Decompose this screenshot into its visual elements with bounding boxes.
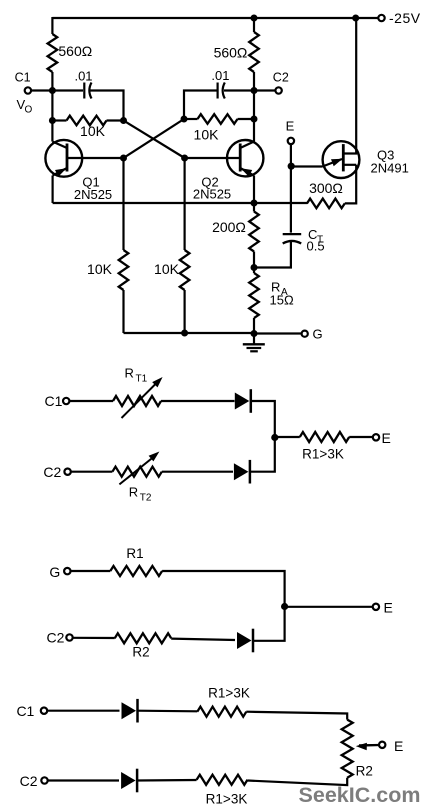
wire right 10K left lead xyxy=(184,118,198,120)
svg-text:E: E xyxy=(384,600,393,616)
label E (section 3) xyxy=(384,600,393,616)
node right vertical / 10K horizontal xyxy=(251,116,258,123)
label -25V xyxy=(389,10,421,26)
label R1 (section 3) xyxy=(126,546,143,561)
wire pot bottom xyxy=(248,778,348,785)
svg-text:E: E xyxy=(286,119,295,134)
label R2 (section 4) xyxy=(356,764,373,779)
svg-text:C2: C2 xyxy=(47,630,65,646)
resistor R1>3K (section 4 lower) xyxy=(197,775,248,785)
wire right 560 top lead xyxy=(253,17,255,32)
wire left cap to corner xyxy=(91,91,124,121)
wire E node to Q3 emitter xyxy=(291,165,322,167)
node top rail / Q3 base-two line xyxy=(352,15,359,22)
wire left vertical between nodes xyxy=(51,91,53,121)
arrow R2 wiper xyxy=(356,743,379,751)
wire ground node to G terminal xyxy=(254,332,301,334)
wire node to left cap xyxy=(52,89,83,91)
label 200 ohm xyxy=(212,219,246,235)
resistor 300&#937; xyxy=(307,199,345,209)
wire Q1 base lead xyxy=(67,157,124,159)
resistor RA 15&#937; xyxy=(249,273,259,318)
label R1>3K (section 4 lower) xyxy=(206,792,248,807)
svg-text:SeekIC.com: SeekIC.com xyxy=(299,783,421,807)
wire CT bottom lead xyxy=(254,241,291,268)
svg-text:10K: 10K xyxy=(154,261,180,277)
label right 10K horizontal xyxy=(194,127,220,143)
label RA xyxy=(271,280,288,299)
wire Q3 emitter lead xyxy=(323,159,343,167)
diode section4 lower xyxy=(121,769,137,793)
transistor Q2 base bar xyxy=(239,144,242,172)
svg-text:C2: C2 xyxy=(273,71,289,85)
resistor right vertical 10K xyxy=(180,250,190,290)
node ground rail / right 10K xyxy=(181,330,188,337)
label Q2 2N525 xyxy=(193,187,231,202)
label right .01 xyxy=(211,68,229,83)
label CT xyxy=(308,227,323,246)
resistor right 10K horizontal xyxy=(198,114,238,124)
arrow Q1 emitter (PNP) xyxy=(55,168,67,176)
resistor right 560&#937; xyxy=(249,32,259,72)
wire C2 to RT2 xyxy=(71,471,112,473)
svg-text:O: O xyxy=(25,105,33,116)
capacitor CT plates xyxy=(283,234,302,243)
node ground junction xyxy=(251,330,258,337)
node right collector / C2 / cap junction xyxy=(251,87,258,94)
wire diode to node (section 3) xyxy=(253,607,285,641)
svg-text:C1: C1 xyxy=(15,71,31,85)
terminal C1 (section 4) xyxy=(41,708,47,714)
label RT1 xyxy=(125,366,148,385)
arrow Q2 emitter (PNP) xyxy=(241,168,253,176)
svg-text:R1>3K: R1>3K xyxy=(206,792,248,807)
terminal C1 (top left) xyxy=(25,87,31,93)
svg-text:R1: R1 xyxy=(126,546,143,561)
wire 200 ohm bottom lead xyxy=(253,252,255,268)
svg-text:R2: R2 xyxy=(356,764,373,779)
resistor 200&#937; xyxy=(249,212,259,252)
wire C1 to node xyxy=(31,89,52,91)
arrow RT1 variable xyxy=(122,377,163,418)
svg-text:560Ω: 560Ω xyxy=(58,43,92,59)
wire 200 ohm top lead xyxy=(253,203,255,212)
wire Q3 base-two lead xyxy=(343,18,356,154)
ground symbol xyxy=(243,333,265,351)
node left vertical / 10K horizontal xyxy=(49,117,56,124)
wire ground rail xyxy=(124,332,255,334)
label Q2 xyxy=(201,175,218,190)
wire Q3 base-one inner lead xyxy=(343,164,356,166)
label R1>3K (section 4 upper) xyxy=(208,686,250,701)
label C1 (top left) xyxy=(15,71,31,85)
svg-text:15Ω: 15Ω xyxy=(270,293,294,308)
wire right 10K right lead xyxy=(238,118,255,120)
transistor Q2 circle xyxy=(227,140,263,176)
wire E to node xyxy=(290,144,292,166)
label C1 (section 4) xyxy=(16,703,34,719)
wire left 560 bottom lead xyxy=(51,72,53,91)
svg-text:R2: R2 xyxy=(132,645,149,660)
label C2 (top) xyxy=(273,71,289,85)
wire 300 ohm to Q3 base-one xyxy=(345,165,356,204)
svg-text:2N525: 2N525 xyxy=(193,187,231,202)
diode section2 lower xyxy=(234,460,250,484)
node Q1 base junction xyxy=(120,155,127,162)
label E (top) xyxy=(286,119,295,134)
wire right cap to node xyxy=(224,89,254,91)
wire right 560 bottom lead xyxy=(253,72,255,91)
transistor Q1 base bar xyxy=(66,144,69,172)
terminal C1 (section 2) xyxy=(63,398,69,404)
node top rail / right 560 ohm xyxy=(251,15,258,22)
wire RA top lead xyxy=(253,268,255,274)
wire Q1 collector lead xyxy=(52,121,67,149)
svg-text:C1: C1 xyxy=(45,393,63,409)
node section2 junction xyxy=(271,434,278,441)
label right vertical 10K xyxy=(154,261,180,277)
svg-text:200Ω: 200Ω xyxy=(212,219,246,235)
svg-text:E: E xyxy=(382,430,391,446)
capacitor right .01 plates xyxy=(218,83,225,99)
label left 560 ohm xyxy=(58,43,92,59)
svg-text:E: E xyxy=(394,738,403,754)
wire diode to R1 (section 4 lower) xyxy=(137,779,197,782)
svg-text:560Ω: 560Ω xyxy=(214,45,248,61)
wire right vertical 10K bottom lead xyxy=(184,290,186,333)
wire Q1 emitter lead xyxy=(53,168,67,203)
transistor Q1 circle xyxy=(45,140,82,177)
svg-text:10K: 10K xyxy=(87,261,113,277)
resistor RT2 xyxy=(112,467,161,477)
terminal C2 (section 3) xyxy=(66,634,72,640)
svg-text:10K: 10K xyxy=(80,123,106,139)
svg-text:2N525: 2N525 xyxy=(74,187,112,202)
svg-text:T1: T1 xyxy=(136,374,148,385)
label left vertical 10K xyxy=(87,261,113,277)
wire C2 to R2 xyxy=(73,637,115,639)
wire C1 to RT1 xyxy=(70,400,114,402)
wire left 10K right lead xyxy=(107,119,124,121)
label C1 (section 2) xyxy=(45,393,63,409)
node right coupling junction xyxy=(181,116,188,123)
node E junction xyxy=(288,163,295,170)
resistor R2 (section 3) xyxy=(115,633,172,643)
label E (section 2) xyxy=(382,430,391,446)
svg-text:.01: .01 xyxy=(211,68,229,83)
terminal E (section 3) xyxy=(373,604,379,610)
wire left vertical 10K bottom lead xyxy=(122,290,124,333)
terminal G xyxy=(302,331,308,337)
label C2 (section 2) xyxy=(43,464,61,480)
svg-text:G: G xyxy=(49,564,60,580)
wire junction to R1 xyxy=(275,436,300,438)
label Q3 xyxy=(377,148,394,163)
wire diode to R1 (section 4 upper) xyxy=(137,710,197,713)
wire common emitter rail xyxy=(53,202,308,204)
transistor Q3 base bar xyxy=(342,144,345,171)
terminal C2 (top) xyxy=(275,87,281,93)
resistor RT1 xyxy=(113,396,161,406)
svg-text:0.5: 0.5 xyxy=(307,239,325,254)
terminal G (section 3) xyxy=(64,568,70,574)
wire left vertical 10K top lead xyxy=(122,158,124,250)
label C2 (section 4) xyxy=(20,773,38,789)
wire G to R1 xyxy=(71,570,111,572)
wire diode to junction (lower) xyxy=(251,438,275,472)
node section3 junction xyxy=(281,603,288,610)
terminal E (top) xyxy=(288,138,294,144)
diode section3 xyxy=(237,629,253,653)
label RT2 xyxy=(129,485,152,504)
arrow Q3 emitter (UJT) xyxy=(331,159,343,166)
svg-text:300Ω: 300Ω xyxy=(309,180,343,196)
capacitor left .01 plates xyxy=(84,83,91,99)
label Vo output xyxy=(17,97,33,116)
label Q1 xyxy=(82,175,99,190)
label left .01 xyxy=(74,69,92,84)
label E (section 4) xyxy=(394,738,403,754)
terminal C2 (section 4) xyxy=(41,777,47,783)
label C2 (section 3) xyxy=(47,630,65,646)
label R2 (section 3) xyxy=(132,645,149,660)
svg-text:R1>3K: R1>3K xyxy=(208,686,250,701)
label 300 ohm xyxy=(309,180,343,196)
wire C1 to diode (section 4) xyxy=(47,710,119,712)
diode section2 upper xyxy=(235,389,251,413)
watermark SeekIC.com xyxy=(299,783,421,807)
node left coupling junction xyxy=(120,117,127,124)
arrow RT2 variable xyxy=(119,452,159,485)
wire RT1 to diode xyxy=(161,400,235,402)
node left collector / C1 / cap junction xyxy=(49,87,56,94)
svg-text:R: R xyxy=(125,366,134,381)
resistor left 10K horizontal xyxy=(67,116,107,126)
transistor Q3 circle xyxy=(323,141,360,178)
label Q3 2N491 xyxy=(371,161,409,176)
svg-text:C2: C2 xyxy=(43,464,61,480)
wire R1 to corner to node xyxy=(162,571,285,607)
svg-text:-25V: -25V xyxy=(389,10,421,26)
wire RA bottom lead xyxy=(253,318,255,333)
wire top -25V supply rail xyxy=(52,17,378,19)
resistor R1>3K (section 2) xyxy=(300,432,349,442)
svg-text:10K: 10K xyxy=(194,127,220,143)
node emitter rail / Q2 emitter / 200 ohm xyxy=(251,200,258,207)
wire right vertical between nodes xyxy=(253,91,255,142)
svg-text:R: R xyxy=(129,485,138,500)
wire R1 to E xyxy=(349,436,373,438)
resistor R1>3K (section 4 upper) xyxy=(197,707,246,717)
wire left 10K left lead xyxy=(52,119,66,121)
wire right vertical 10K top lead xyxy=(184,158,186,250)
wire Q2 base lead xyxy=(185,157,241,159)
wire RT2 to diode xyxy=(162,471,233,473)
label G xyxy=(313,327,323,342)
svg-text:G: G xyxy=(313,327,323,342)
terminal -25V xyxy=(378,15,384,21)
wire right cap to corner xyxy=(184,91,217,120)
wire diode to junction (upper) xyxy=(251,401,275,438)
label RA 15 ohm xyxy=(270,293,294,308)
svg-text:C2: C2 xyxy=(20,773,38,789)
terminal E (section 2) xyxy=(373,434,379,440)
wire Q2 emitter lead xyxy=(240,168,254,203)
label left 10K horizontal xyxy=(80,123,106,139)
wire left 560 top lead xyxy=(51,17,53,34)
wire C2 to diode (section 4) xyxy=(48,779,119,781)
wire node to C2 terminal xyxy=(254,89,275,91)
svg-text:2N491: 2N491 xyxy=(371,161,409,176)
wire R2 to diode xyxy=(171,639,235,640)
label CT 0.5 xyxy=(307,239,325,254)
node 200 ohm / CT / RA junction xyxy=(251,264,258,271)
svg-text:C1: C1 xyxy=(16,703,34,719)
svg-text:.01: .01 xyxy=(74,69,92,84)
resistor R1 (section 3) xyxy=(110,566,162,576)
svg-text:R1>3K: R1>3K xyxy=(302,447,344,462)
terminal C2 (section 2) xyxy=(64,469,70,475)
wire node to E (section 3) xyxy=(285,606,373,608)
wire E node down to CT xyxy=(290,166,292,233)
wire Q2 collector lead xyxy=(240,142,254,149)
label R1>3K (section 2) xyxy=(302,447,344,462)
node Q2 base junction xyxy=(181,155,188,162)
label Q1 2N525 xyxy=(74,187,112,202)
diode section4 upper xyxy=(122,699,138,723)
svg-text:T2: T2 xyxy=(140,493,152,504)
resistor left vertical 10K xyxy=(119,250,129,290)
wire R1 to pot top xyxy=(246,712,347,720)
wire wiper to E xyxy=(359,744,379,746)
wire diagonal left-junction to Q2 base xyxy=(124,121,185,159)
resistor left 560&#937; xyxy=(48,34,58,72)
wire diagonal right-junction to Q1 base xyxy=(124,119,185,158)
terminal E (section 4) xyxy=(379,742,385,748)
label right 560 ohm xyxy=(214,45,248,61)
potentiometer R2 (section 4) xyxy=(342,720,353,778)
label G (section 3) xyxy=(49,564,60,580)
